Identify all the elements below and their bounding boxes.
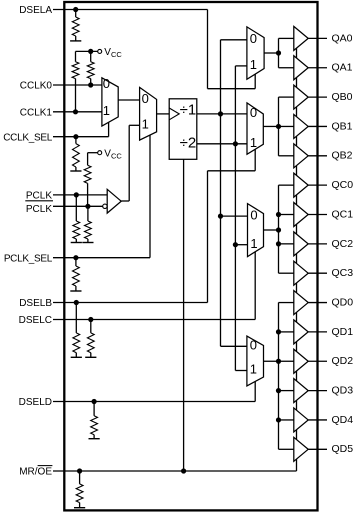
- buffer QB2 output driver: [294, 144, 308, 168]
- svg-text:CC: CC: [111, 152, 122, 161]
- buffer QB0 output driver: [294, 85, 308, 109]
- node QD3 stub junction: [276, 388, 281, 393]
- svg-text:QB1: QB1: [332, 120, 353, 132]
- buffer QD2 output driver: [294, 349, 308, 373]
- wire QC1 output pin: [308, 214, 327, 216]
- svg-text:÷1: ÷1: [180, 102, 197, 119]
- svg-text:QC1: QC1: [332, 208, 353, 220]
- ground termination CCLK_SEL resistor: [70, 170, 81, 172]
- svg-text:1: 1: [250, 362, 257, 377]
- wire QD bank bus: [278, 303, 280, 450]
- svg-text:1: 1: [250, 236, 257, 251]
- svg-text:QC0: QC0: [332, 179, 353, 191]
- wire CCLK1 input: [53, 111, 102, 113]
- svg-text:MR/OE: MR/OE: [19, 467, 52, 478]
- mux U1 CCLK0/CCLK1 select: [102, 78, 118, 126]
- svg-text:QB2: QB2: [332, 150, 353, 162]
- svg-text:CCLK_SEL: CCLK_SEL: [3, 132, 52, 143]
- node /1 to QC mux input 0: [218, 214, 223, 219]
- svg-text:DSELA: DSELA: [19, 5, 52, 16]
- node QD bus output junction: [276, 359, 281, 364]
- inversion bubble on PCLKb buffer input: [103, 204, 107, 208]
- wire divider MR line down to MR/OEb: [183, 159, 185, 471]
- resistor pull-up on CCLK1: [75, 51, 77, 61]
- wire MR/OEb input: [53, 470, 297, 472]
- ground termination PCLK resistor: [71, 242, 82, 244]
- mux U5 bank QB select: [247, 103, 263, 154]
- svg-text:1: 1: [250, 135, 257, 150]
- wire QB1 output pin: [308, 125, 327, 127]
- node CCLK1 junction: [73, 109, 78, 114]
- svg-text:DSELB: DSELB: [19, 298, 52, 309]
- wire /1 distribution riser: [220, 40, 222, 347]
- ground termination PCLK_SEL resistor: [70, 290, 81, 292]
- wire DSELD input: [53, 401, 255, 403]
- wire QA0 output pin: [308, 37, 327, 39]
- wire QA mux output to QA bus: [264, 52, 278, 54]
- wire QD mux output to QD bus: [264, 360, 279, 362]
- wire QC0 output pin: [308, 184, 327, 186]
- svg-text:0: 0: [250, 105, 257, 120]
- wire DSELC input: [53, 319, 255, 321]
- svg-text:1: 1: [250, 57, 257, 72]
- svg-text:÷2: ÷2: [180, 135, 197, 152]
- wire QC mux output to QC bus: [264, 229, 279, 231]
- wire PCLK buffer output up to source mux input 1: [121, 200, 129, 202]
- resistor pull-up on CCLK0: [90, 51, 92, 61]
- wire PCLK input: [53, 194, 107, 196]
- node PCLKb junction: [85, 204, 90, 209]
- wire /2 distribution riser: [234, 66, 236, 371]
- wire QB bank bus: [278, 97, 280, 156]
- node DSELB junction: [74, 300, 79, 305]
- wire QC bank bus: [278, 185, 280, 273]
- resistor pull-down on PCLKb: [87, 206, 89, 221]
- svg-text:0: 0: [250, 338, 257, 353]
- node QB bus junction: [276, 124, 281, 129]
- svg-text:DSELC: DSELC: [19, 315, 52, 326]
- resistor pull-up on PCLKb: [87, 153, 89, 166]
- svg-text:CCLK1: CCLK1: [20, 107, 53, 118]
- node /2 branch junction: [233, 141, 238, 146]
- node QC2 stub junction: [276, 241, 281, 246]
- svg-text:QD0: QD0: [332, 296, 353, 308]
- node QA bus junction: [276, 50, 281, 55]
- wire QB0 output pin: [308, 96, 327, 98]
- buffer QD0 output driver: [294, 291, 308, 315]
- wire source mux output to divider clock input: [157, 113, 170, 115]
- svg-text:QC2: QC2: [332, 238, 353, 250]
- buffer QA0 output driver: [294, 26, 308, 50]
- power Vcc node for PCLKb pull-up: [88, 152, 98, 154]
- ground termination DSELB resistor: [71, 356, 82, 358]
- wire DSELA to QA mux select: [207, 10, 209, 89]
- buffer QD5 output driver: [294, 437, 308, 461]
- buffer QC2 output driver: [294, 232, 308, 256]
- wire QD3 output pin: [308, 390, 327, 392]
- svg-text:QD1: QD1: [332, 326, 353, 338]
- svg-text:0: 0: [250, 31, 257, 46]
- resistor pull-down on DSELB: [75, 303, 77, 333]
- wire PCLK_SEL input: [53, 257, 150, 259]
- svg-text:1: 1: [142, 117, 149, 132]
- mux U4 bank QA select: [247, 27, 264, 79]
- divider block U3 (divide by 1 / divide by 2): [169, 99, 197, 160]
- resistor pull-down on MR/OEb: [79, 471, 81, 484]
- node PCLK_SEL junction: [73, 255, 78, 260]
- node /1 branch junction: [218, 111, 223, 116]
- buffer QC0 output driver: [294, 173, 308, 197]
- node CCLK0 junction: [88, 82, 93, 87]
- clock input wedge of divider: [169, 108, 179, 120]
- ground termination PCLKb resistor: [82, 242, 93, 244]
- svg-text:1: 1: [103, 103, 110, 118]
- wire QB mux output to QB bus: [263, 125, 278, 127]
- svg-text:QD3: QD3: [332, 385, 353, 397]
- wire CCLK0 input: [53, 84, 102, 86]
- wire DSELA input: [53, 9, 208, 11]
- wire CCLK mux output to source mux input 0: [118, 99, 139, 101]
- wire divider /1 output to QB mux input 0: [197, 113, 247, 115]
- separator line between PCLK labels: [25, 200, 53, 202]
- wire QC3 output pin: [308, 272, 327, 274]
- buffer QD1 output driver: [294, 320, 308, 344]
- svg-text:QD2: QD2: [332, 355, 353, 367]
- wire QA1 output pin: [308, 67, 327, 69]
- wire divider /2 output to QB mux input 1: [197, 143, 247, 145]
- wire QB2 output pin: [308, 155, 327, 157]
- resistor pull-down on CCLK_SEL: [75, 137, 77, 144]
- power Vcc node for CCLK pull-ups: [76, 50, 98, 52]
- svg-text:DSELD: DSELD: [19, 397, 52, 408]
- node QD4 stub junction: [276, 417, 281, 422]
- node QC1 stub junction: [276, 212, 281, 217]
- ground termination MR/OEb resistor: [74, 507, 85, 509]
- wire QD2 output pin: [308, 360, 327, 362]
- wire DSELB to QB mux select: [207, 171, 209, 303]
- buffer QD4 output driver: [294, 408, 308, 432]
- svg-text:QD5: QD5: [332, 443, 353, 455]
- wire QA bank bus: [278, 38, 280, 67]
- ground termination DSELC resistor: [85, 356, 96, 358]
- resistor pull-down on DSELC: [90, 320, 92, 333]
- node CCLK_SEL junction: [73, 134, 78, 139]
- node QC bus output junction: [276, 227, 281, 232]
- wire DSELB input: [53, 302, 208, 304]
- svg-text:CC: CC: [111, 50, 122, 59]
- op-amp PCLK differential input buffer: [107, 189, 121, 213]
- svg-text:CCLK0: CCLK0: [20, 81, 53, 92]
- mux U6 bank QC select: [248, 204, 264, 257]
- resistor pull-down on DSELD: [93, 402, 95, 416]
- wire DSELC to QC mux select: [254, 252, 256, 320]
- node MR/OEb junction at resistor: [77, 468, 82, 473]
- node DSELC junction: [88, 317, 93, 322]
- node DSELA junction: [73, 7, 78, 12]
- chip boundary: [64, 2, 317, 510]
- wire QC2 output pin: [308, 243, 327, 245]
- resistor pull-down on PCLK_SEL: [75, 258, 77, 266]
- resistor pull-down on DSELA: [75, 10, 77, 18]
- buffer QC3 output driver: [294, 261, 308, 285]
- wire DSELD to QD mux select: [254, 382, 256, 402]
- buffer QC1 output driver: [294, 203, 308, 227]
- ground termination DSELA resistor: [70, 40, 81, 42]
- mux U2 PCLK/CCLK source select: [140, 87, 157, 140]
- wire CCLK_SEL input: [53, 136, 109, 138]
- svg-text:0: 0: [103, 76, 110, 91]
- svg-text:QB0: QB0: [332, 91, 353, 103]
- buffer QD3 output driver: [294, 379, 308, 403]
- svg-text:PCLK: PCLK: [26, 204, 52, 215]
- svg-text:0: 0: [250, 207, 257, 222]
- ground termination DSELD resistor: [89, 438, 100, 440]
- svg-text:0: 0: [142, 91, 149, 106]
- wire PCLKb input: [53, 205, 103, 207]
- resistor pull-down on PCLK: [75, 195, 77, 221]
- svg-text:QD4: QD4: [332, 414, 353, 426]
- node QD1 stub junction: [276, 329, 281, 334]
- svg-text:PCLK_SEL: PCLK_SEL: [4, 253, 53, 264]
- svg-text:QA1: QA1: [332, 62, 353, 74]
- mux U7 bank QD select: [247, 336, 264, 386]
- node DSELD junction: [92, 399, 97, 404]
- wire QD0 output pin: [308, 302, 327, 304]
- svg-text:QA0: QA0: [332, 32, 353, 44]
- buffer QB1 output driver: [294, 114, 308, 138]
- wire QD4 output pin: [308, 419, 327, 421]
- wire output enable chain from MR/OEb: [296, 44, 298, 471]
- node MR junction to divider reset: [181, 468, 186, 473]
- svg-text:PCLK: PCLK: [26, 190, 52, 201]
- wire QD1 output pin: [308, 331, 327, 333]
- svg-text:QC3: QC3: [332, 267, 353, 279]
- wire QD5 output pin: [308, 448, 327, 450]
- buffer QA1 output driver: [294, 56, 308, 80]
- node /2 to QC mux input 1: [233, 242, 238, 247]
- node PCLK junction: [74, 192, 79, 197]
